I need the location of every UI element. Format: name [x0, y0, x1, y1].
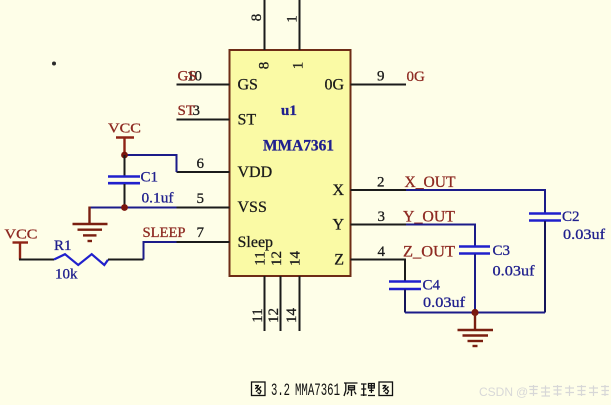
wire C2 to bottom rail [544, 221, 546, 313]
junction dot VSS node [121, 204, 128, 211]
U1 pin 8 wire (top) [264, 0, 266, 50]
svg-text:C1: C1 [141, 170, 159, 186]
svg-text:ST: ST [178, 103, 196, 119]
svg-text:0G: 0G [407, 69, 426, 85]
svg-text:9: 9 [377, 69, 385, 85]
svg-text:11: 11 [250, 308, 266, 322]
power VCC (upper) [108, 122, 141, 156]
wire C4 to bottom rail [404, 290, 406, 313]
svg-text:1: 1 [291, 62, 307, 70]
caption CJK glyph 原 [344, 383, 358, 396]
svg-text:14: 14 [288, 251, 304, 267]
U1 pin 4 stub (Z) [351, 259, 407, 261]
caption CJK glyph 图 [379, 382, 393, 396]
U1 pin 10 stub (GS) [177, 84, 230, 86]
svg-text:14: 14 [284, 308, 300, 324]
wire Z_OUT vertical to C4 [404, 260, 406, 282]
capacitor C4 [389, 282, 421, 290]
svg-text:7: 7 [197, 225, 205, 241]
watermark CSDN @... [479, 385, 609, 399]
U1 pin 1 wire (top) [299, 0, 301, 50]
svg-text:5: 5 [197, 191, 205, 207]
svg-text:CSDN: CSDN [479, 385, 513, 399]
svg-text:X: X [332, 182, 344, 199]
wire VSS net [90, 207, 177, 209]
wire C1 to VSS node [124, 184, 126, 208]
svg-text:C3: C3 [493, 243, 511, 259]
svg-text:4: 4 [378, 244, 386, 260]
svg-text:0G: 0G [324, 77, 344, 94]
wire bottom rail [405, 312, 545, 314]
caption CJK glyph 图 [252, 382, 266, 396]
svg-text:0.03uf: 0.03uf [563, 227, 605, 243]
svg-text:12: 12 [266, 308, 282, 323]
svg-text:0.03uf: 0.03uf [423, 295, 465, 311]
ground (right) [458, 313, 494, 347]
svg-text:10k: 10k [55, 267, 78, 283]
wire C3 to bottom rail [474, 254, 476, 313]
wire VCC node to C1 [124, 155, 126, 176]
caption 图 3.2 MMA7361 原理图 [252, 381, 393, 401]
svg-text:C2: C2 [562, 209, 580, 225]
svg-text:Z_OUT: Z_OUT [403, 244, 455, 261]
svg-text:GS: GS [238, 77, 258, 94]
svg-text:Z: Z [334, 252, 344, 269]
U1 pin 12 wire (bottom) [280, 276, 282, 331]
svg-text:0.03uf: 0.03uf [493, 264, 535, 280]
U1 pin 5 stub (VSS) [177, 207, 230, 209]
svg-text:R1: R1 [54, 238, 72, 254]
U1 pin 3 stub (ST) [177, 119, 230, 121]
capacitor C2 [529, 214, 561, 221]
wire Y_OUT horizontal [406, 224, 475, 226]
wire VCC to R1 [19, 259, 54, 261]
svg-text:MMA7361: MMA7361 [263, 138, 334, 155]
junction dot bottom rail [471, 309, 478, 316]
svg-text:Y_OUT: Y_OUT [403, 209, 455, 226]
svg-text:X_OUT: X_OUT [405, 174, 456, 191]
wire X_OUT vertical to C2 [544, 189, 546, 213]
svg-text:2: 2 [377, 175, 385, 191]
svg-text:0.1uf: 0.1uf [142, 191, 174, 207]
svg-text:MMA7361: MMA7361 [295, 381, 340, 401]
IC U1 body [230, 50, 351, 276]
wire R1 to Sleep corner [108, 259, 144, 261]
U1 pin 7 stub (Sleep) [177, 241, 230, 243]
wire Sleep riser [144, 242, 177, 260]
wire VDD pin to VCC node [125, 155, 177, 172]
caption CJK glyph 理 [361, 384, 375, 397]
svg-text:VCC: VCC [5, 228, 38, 243]
svg-text:3: 3 [378, 209, 386, 225]
svg-text:Y: Y [332, 217, 344, 234]
wire Y_OUT vertical to C3 [474, 224, 476, 247]
svg-text:11: 11 [253, 251, 269, 265]
capacitor C3 [459, 247, 490, 254]
svg-text:8: 8 [257, 62, 273, 70]
U1 pin 9 stub (0G) [351, 84, 407, 86]
svg-text:6: 6 [197, 156, 205, 172]
svg-text:VDD: VDD [238, 164, 273, 181]
svg-text:VCC: VCC [108, 122, 141, 137]
svg-text:VSS: VSS [238, 199, 267, 216]
stray dot [52, 62, 56, 66]
svg-text:C4: C4 [423, 278, 441, 294]
svg-text:1: 1 [285, 15, 301, 23]
U1 pin 6 stub (VDD) [177, 171, 230, 173]
power VCC (lower left) [5, 228, 38, 260]
svg-text:Sleep: Sleep [238, 234, 274, 251]
svg-text:3.2: 3.2 [271, 381, 290, 401]
svg-text:u1: u1 [281, 103, 297, 119]
wire X_OUT horizontal [406, 189, 545, 191]
capacitor C1 [108, 177, 140, 184]
U1 pin 14 wire (bottom) [299, 276, 301, 331]
svg-text:SLEEP: SLEEP [143, 225, 186, 241]
svg-text:ST: ST [238, 112, 257, 129]
resistor R1 [54, 254, 108, 265]
junction dot VCC node [121, 152, 128, 159]
svg-text:12: 12 [269, 251, 285, 266]
U1 pin 2 stub (X) [351, 189, 407, 191]
svg-text:@: @ [516, 385, 528, 399]
U1 pin 3 stub (Y) [351, 224, 407, 226]
svg-text:8: 8 [249, 14, 265, 22]
svg-text:GS: GS [178, 69, 197, 85]
ground (left) [73, 207, 108, 242]
U1 pin 11 wire (bottom) [264, 276, 266, 331]
